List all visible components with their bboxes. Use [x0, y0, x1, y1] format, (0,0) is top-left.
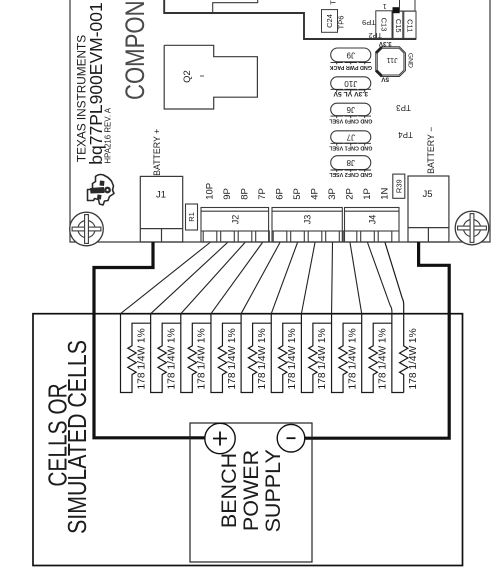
resistor R_cell9 178 1/4W 1%	[362, 314, 392, 393]
svg-text:J8: J8	[346, 158, 355, 167]
svg-text:5V: 5V	[381, 76, 390, 83]
connector J7	[331, 131, 371, 143]
wire pin 2P to tap 9	[350, 243, 362, 314]
svg-text:J6: J6	[346, 105, 355, 114]
wire pin 10P to tap 1	[121, 243, 211, 314]
capacitor C24	[322, 10, 338, 33]
svg-text:5P: 5P	[292, 188, 303, 200]
svg-text:J9: J9	[346, 50, 355, 59]
svg-text:178 1/4W 1%: 178 1/4W 1%	[378, 328, 389, 389]
capacitor C15	[393, 11, 403, 38]
svg-text:178 1/4W 1%: 178 1/4W 1%	[257, 328, 268, 389]
svg-text:2P: 2P	[345, 188, 356, 200]
svg-text:BATTERY +: BATTERY +	[152, 129, 162, 176]
node mounting hole bottom-right	[455, 211, 489, 245]
wire pin 7P to tap 4	[211, 243, 263, 314]
svg-text:TP4: TP4	[398, 130, 413, 139]
wire pin 4P to tap 7	[301, 243, 315, 314]
svg-text:178 1/4W 1%: 178 1/4W 1%	[136, 328, 147, 389]
svg-text:T: T	[329, 0, 338, 5]
wire pin 8P to tap 3	[181, 243, 245, 314]
resistor R_cell4 178 1/4W 1%	[211, 314, 241, 393]
svg-text:Q2: Q2	[182, 70, 193, 83]
svg-text:J4: J4	[367, 215, 377, 225]
svg-text:4P: 4P	[310, 188, 321, 200]
connector J8	[331, 156, 371, 170]
capacitor C11	[404, 11, 416, 38]
wire : EVM board outline	[70, 0, 490, 242]
svg-text:J2: J2	[230, 215, 240, 225]
svg-text:3.3V: 3.3V	[378, 40, 392, 47]
resistor R1	[186, 204, 198, 230]
svg-text:R39: R39	[394, 179, 403, 193]
svg-text:C13: C13	[380, 18, 389, 32]
connector J3	[272, 208, 342, 243]
resistor R_cell10 178 1/4W 1%	[392, 314, 404, 393]
node terminal +	[205, 423, 235, 453]
svg-text:TP3: TP3	[396, 103, 411, 112]
node TI logo	[88, 175, 115, 206]
svg-text:BENCH: BENCH	[217, 453, 241, 528]
svg-text:178 1/4W 1%: 178 1/4W 1%	[408, 328, 419, 389]
op-amp U1 : large IC outline (cut off)	[164, 0, 416, 39]
svg-text:3P: 3P	[327, 188, 338, 200]
connector J6	[331, 103, 371, 116]
resistor R_cell1 178 1/4W 1%	[121, 314, 151, 393]
svg-text:J1: J1	[156, 190, 166, 201]
svg-text:SUPPLY: SUPPLY	[261, 449, 285, 532]
svg-text:GND CNF0 VSEL: GND CNF0 VSEL	[328, 117, 372, 123]
resistor R_cell3 178 1/4W 1%	[181, 314, 211, 393]
svg-text:GND PWR PACK: GND PWR PACK	[329, 64, 372, 70]
svg-text:R1: R1	[187, 212, 196, 222]
wire pin 6P to tap 5	[241, 243, 280, 314]
resistor R_cell5 178 1/4W 1%	[241, 314, 271, 393]
connector J5	[408, 176, 449, 242]
svg-text:178 1/4W 1%: 178 1/4W 1%	[197, 328, 208, 389]
svg-text:GND CNF2 VSEL: GND CNF2 VSEL	[328, 171, 372, 177]
connector J11	[376, 47, 406, 77]
svg-text:J11: J11	[387, 56, 398, 65]
transistor Q2	[164, 45, 257, 109]
svg-text:3.3V VL 5V: 3.3V VL 5V	[333, 90, 368, 97]
svg-text:HPA216 REV. A: HPA216 REV. A	[104, 107, 113, 163]
svg-text:178 1/4W 1%: 178 1/4W 1%	[317, 328, 328, 389]
node connector fragment top-right	[400, 0, 416, 11]
svg-text:POWER: POWER	[239, 450, 263, 531]
svg-text:C11: C11	[405, 19, 414, 32]
svg-text:1P: 1P	[362, 188, 373, 200]
svg-text:COMPONENT: COMPONENT	[121, 0, 151, 100]
svg-text:178 1/4W 1%: 178 1/4W 1%	[287, 328, 298, 389]
svg-text:1: 1	[383, 2, 387, 9]
wire BATTERY+ J1 to bench supply +	[94, 242, 205, 438]
wire BATTERY- J5 to bench supply -	[305, 242, 449, 438]
svg-text:SIMULATED CELLS: SIMULATED CELLS	[63, 340, 93, 534]
wire pin 3P to tap 8	[331, 243, 334, 314]
resistor R_cell6 178 1/4W 1%	[271, 314, 301, 393]
svg-text:GND: GND	[406, 53, 413, 68]
connector J4	[343, 208, 399, 243]
svg-text:178 1/4W 1%: 178 1/4W 1%	[227, 328, 238, 389]
node mounting hole bottom-left	[70, 212, 104, 246]
svg-text:9P: 9P	[222, 188, 233, 200]
svg-text:J10: J10	[344, 79, 357, 88]
wire pin 1N to resistor 10	[385, 243, 408, 393]
svg-text:TP6: TP6	[336, 16, 345, 30]
resistor R_cell2 178 1/4W 1%	[151, 314, 181, 393]
connector J2	[201, 208, 269, 243]
wire pin 1P to tap 10	[368, 243, 392, 314]
svg-text:J7: J7	[346, 133, 355, 142]
svg-text:178 1/4W 1%: 178 1/4W 1%	[347, 328, 358, 389]
svg-text:7P: 7P	[257, 188, 268, 200]
svg-text:BATTERY −: BATTERY −	[426, 127, 436, 174]
connector J9	[331, 48, 371, 62]
capacitor fragment (cut off at top)	[213, 0, 258, 13]
node BENCH POWER SUPPLY box	[190, 423, 312, 562]
svg-text:C24: C24	[325, 14, 334, 28]
svg-text:GND CNF1 VSEL: GND CNF1 VSEL	[328, 145, 372, 151]
connector J1	[140, 176, 182, 242]
resistor R39	[393, 174, 405, 198]
svg-text:8P: 8P	[240, 188, 251, 200]
svg-text:10P: 10P	[205, 183, 216, 200]
svg-text:1N: 1N	[380, 188, 391, 200]
wire pin 5P to tap 6	[271, 243, 297, 314]
svg-text:178 1/4W 1%: 178 1/4W 1%	[166, 328, 177, 389]
connector J10	[331, 77, 371, 90]
resistor R_cell7 178 1/4W 1%	[301, 314, 331, 393]
node pad (filled)	[393, 7, 400, 13]
svg-text:TP9: TP9	[362, 18, 376, 27]
svg-text:J5: J5	[422, 189, 432, 200]
node CELLS box	[33, 314, 463, 566]
node terminal -	[277, 424, 305, 452]
svg-text:C15: C15	[394, 19, 403, 33]
svg-text:6P: 6P	[275, 188, 286, 200]
wire pin 9P to tap 2	[151, 243, 228, 314]
resistor R_cell8 178 1/4W 1%	[332, 314, 362, 393]
svg-text:J3: J3	[303, 215, 313, 225]
capacitor C13	[376, 11, 392, 39]
